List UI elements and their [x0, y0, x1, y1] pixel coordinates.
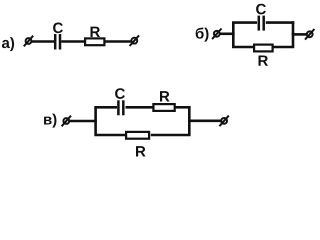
wire (top branch right, circuit v) — [176, 106, 191, 109]
wire (bottom branch left, circuit b) — [233, 33, 253, 48]
wire — [105, 40, 132, 43]
wire (bottom branch right, circuit b) — [273, 33, 293, 48]
resistor R2 — [254, 45, 273, 52]
node B (right junction, circuit b) — [292, 21, 295, 35]
value label R (resistor R1) — [91, 27, 101, 37]
label a) — [2, 37, 14, 51]
resistor R3 (top branch, circuit v) — [153, 104, 174, 111]
label v) — [44, 114, 56, 128]
wire — [189, 120, 221, 123]
capacitor C2 — [259, 16, 264, 31]
wire (bottom branch left, circuit v) — [96, 120, 127, 135]
terminal X4 (right terminal, circuit b) — [305, 29, 314, 40]
value label C (capacitor C3) — [115, 88, 125, 99]
node C (left junction, circuit v) — [94, 107, 97, 122]
node A (left junction, circuit b) — [232, 22, 235, 35]
terminal X1 (left terminal, circuit a) — [24, 36, 33, 47]
wire (bottom branch right, circuit v) — [151, 120, 190, 135]
wire (top branch left, circuit b) — [232, 21, 257, 24]
terminal X5 (left terminal, circuit v) — [62, 116, 71, 127]
wire (top branch middle, circuit v) — [126, 106, 153, 109]
value label R (resistor R3) — [160, 91, 170, 101]
capacitor C3 — [118, 100, 123, 115]
wire — [69, 120, 96, 123]
label b) — [196, 28, 209, 42]
wire — [293, 33, 307, 36]
node D (right junction, circuit v) — [188, 106, 191, 122]
terminal X2 (right terminal, circuit a) — [130, 35, 139, 46]
terminal X6 (right terminal, circuit v) — [219, 116, 228, 127]
value label C (capacitor C2) — [256, 4, 266, 15]
value label R (resistor R4) — [136, 146, 146, 156]
wire — [61, 40, 84, 43]
wire — [220, 32, 235, 35]
wire — [31, 40, 54, 43]
terminal X3 (left terminal, circuit b) — [212, 29, 221, 40]
wire (top branch right, circuit b) — [266, 21, 295, 24]
wire (top branch left, circuit v) — [94, 106, 117, 109]
value label C (capacitor C1) — [53, 23, 63, 34]
value label R (resistor R2) — [259, 55, 269, 65]
resistor R4 (bottom branch, circuit v) — [126, 132, 149, 139]
resistor R1 — [85, 38, 104, 45]
capacitor C1 — [55, 34, 60, 50]
